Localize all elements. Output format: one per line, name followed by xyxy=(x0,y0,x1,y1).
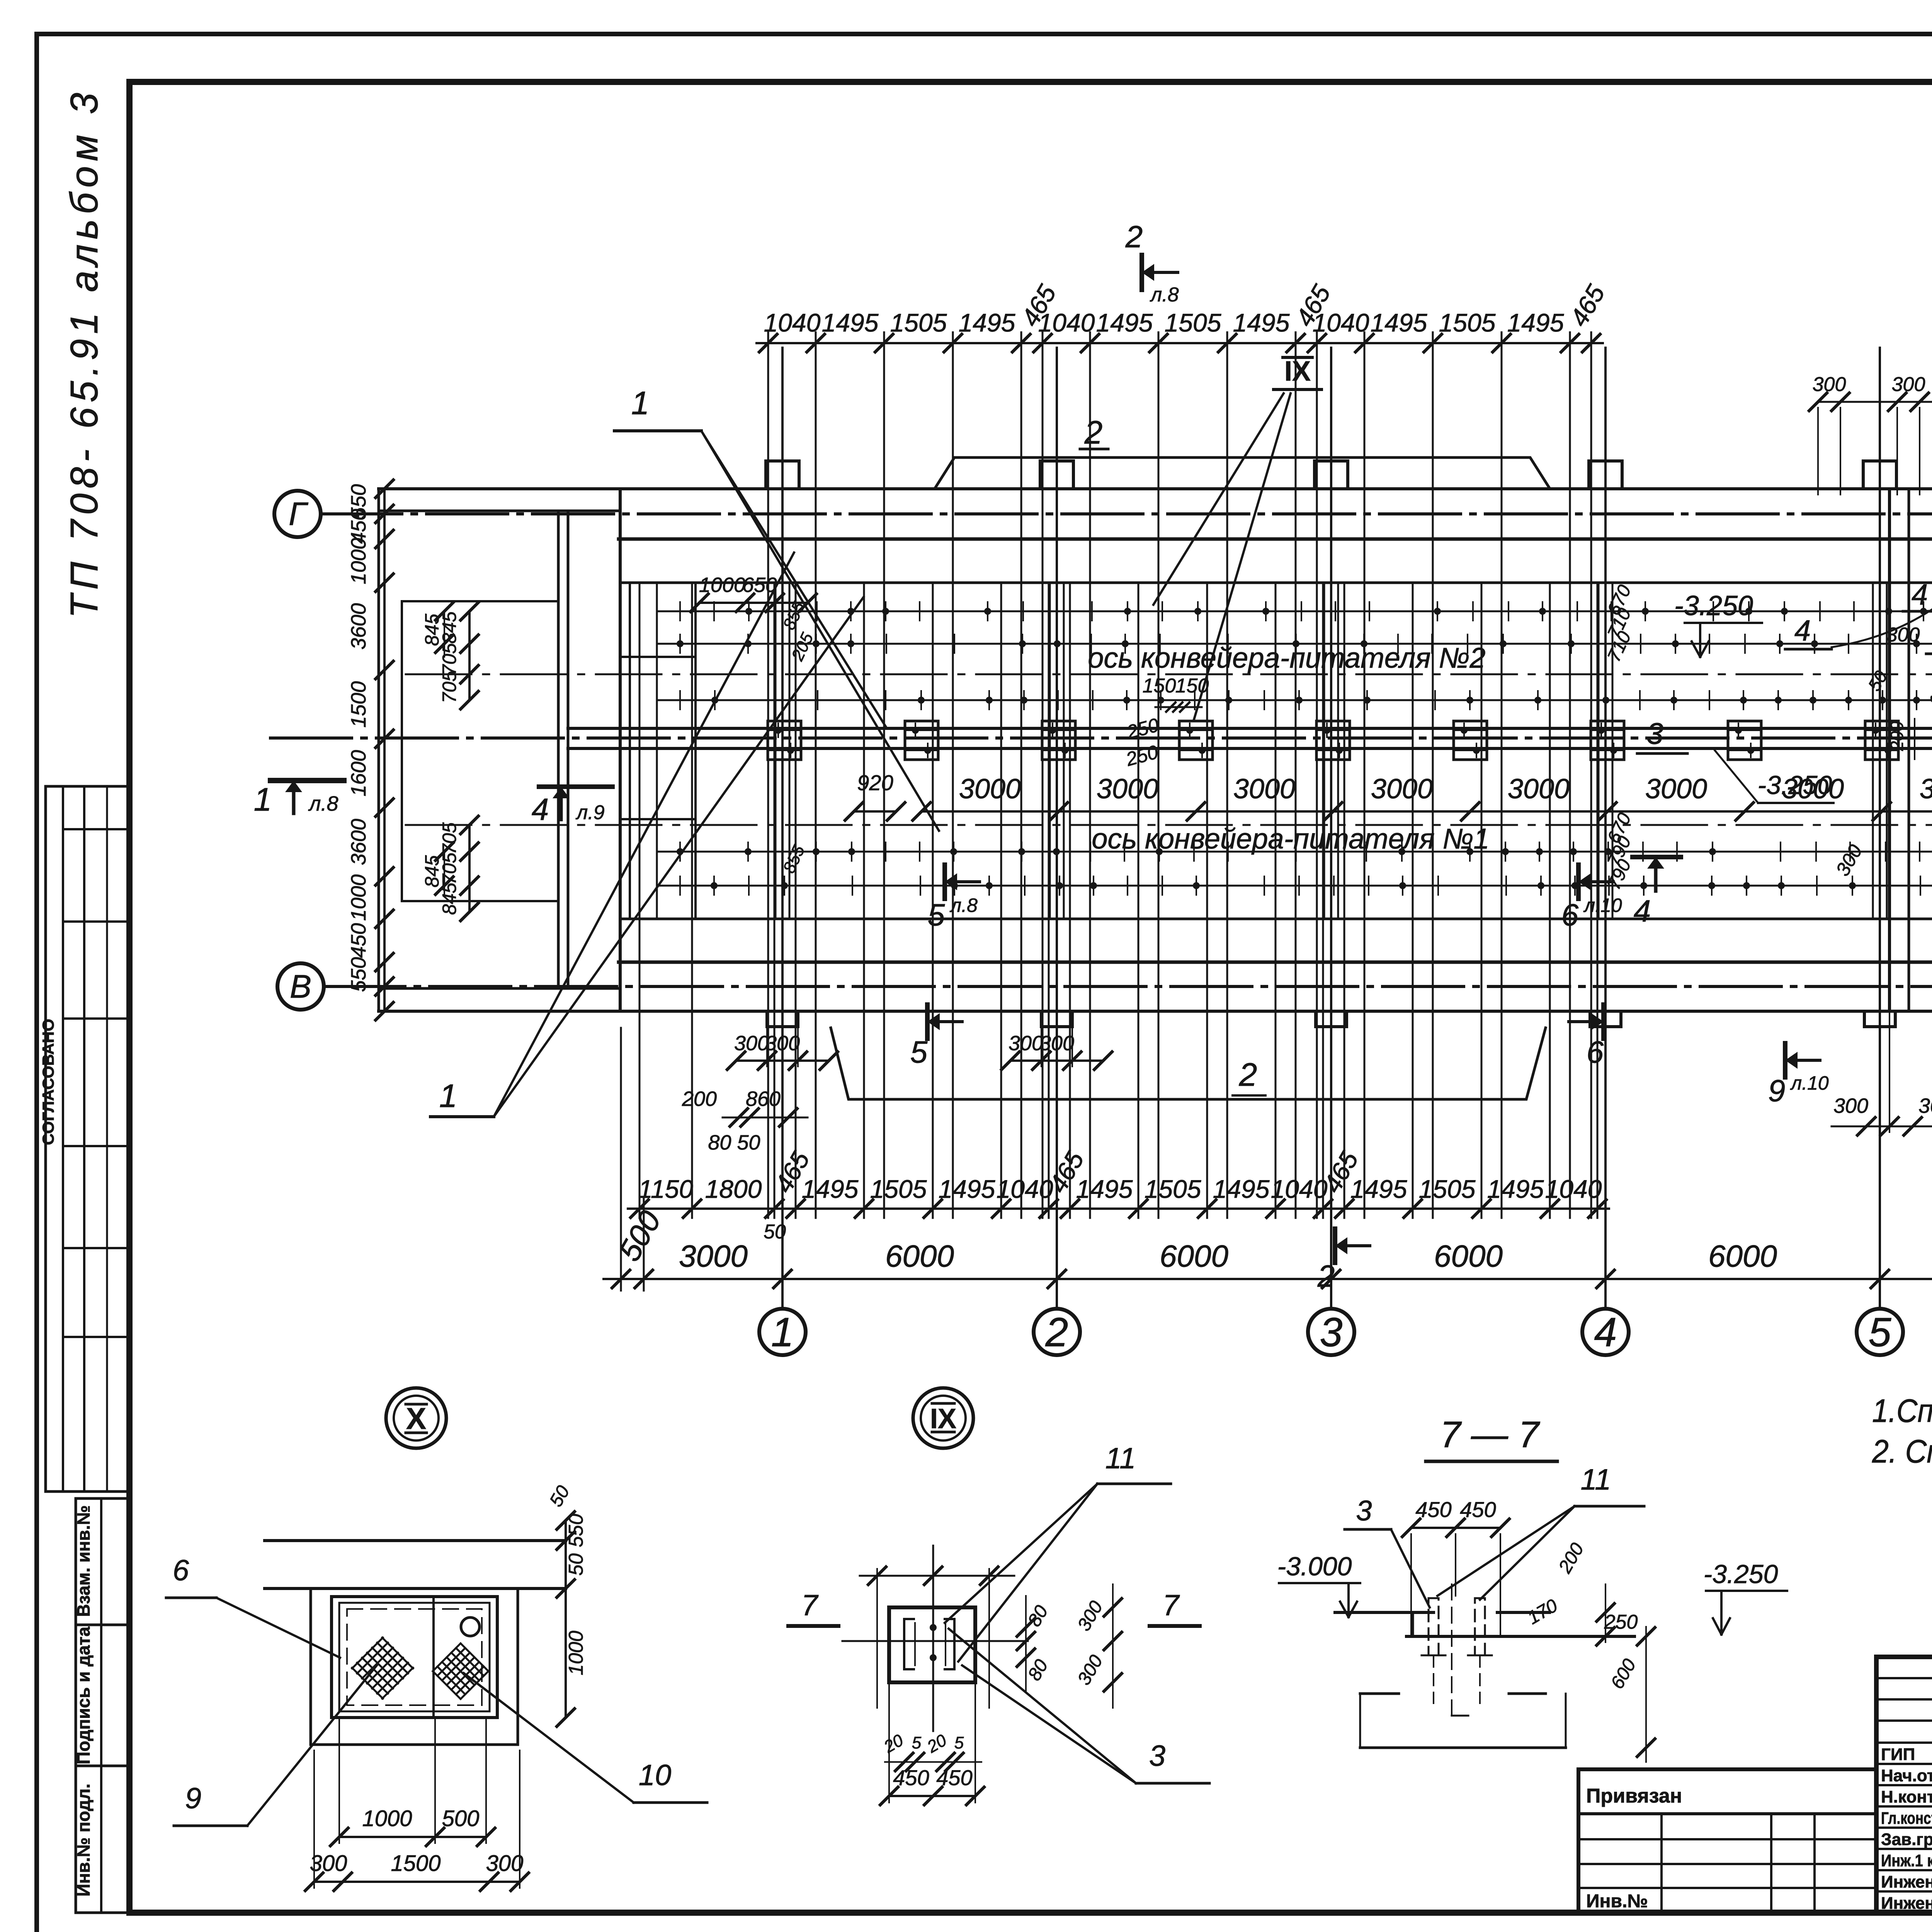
detail X hatch right xyxy=(433,1643,461,1671)
svg-text:450: 450 xyxy=(1415,1497,1451,1522)
svg-text:1505: 1505 xyxy=(1165,308,1221,337)
svg-text:-3.250: -3.250 xyxy=(1674,590,1753,621)
top wall thick line xyxy=(619,537,1932,541)
svg-text:6000: 6000 xyxy=(1708,1239,1777,1273)
svg-text:л.8: л.8 xyxy=(949,895,978,916)
svg-text:1000: 1000 xyxy=(565,1631,587,1675)
svg-text:1495: 1495 xyxy=(1507,308,1564,337)
svg-text:л.10: л.10 xyxy=(1583,895,1622,916)
svg-text:3000: 3000 xyxy=(1920,774,1932,804)
svg-text:1040: 1040 xyxy=(1038,308,1095,337)
rail center axis line xyxy=(270,736,1932,740)
svg-text:4: 4 xyxy=(1634,894,1651,928)
svg-text:2: 2 xyxy=(1084,414,1103,451)
svg-text:4: 4 xyxy=(1794,614,1811,647)
svg-text:2: 2 xyxy=(1045,1310,1068,1355)
svg-text:л.10: л.10 xyxy=(1790,1072,1829,1094)
svg-text:1000: 1000 xyxy=(347,538,370,584)
svg-text:550: 550 xyxy=(565,1514,587,1548)
svg-text:300: 300 xyxy=(1892,373,1925,396)
dim 150-150 interior xyxy=(1155,706,1202,708)
svg-text:7 — 7: 7 — 7 xyxy=(1440,1414,1541,1455)
svg-text:1505: 1505 xyxy=(1439,308,1496,337)
left vertical dimension chain xyxy=(383,489,386,1011)
svg-text:450: 450 xyxy=(936,1765,972,1790)
svg-text:7: 7 xyxy=(1163,1589,1180,1622)
svg-text:Инженер: Инженер xyxy=(1881,1872,1932,1891)
svg-text:1495: 1495 xyxy=(1350,1175,1407,1203)
svg-text:450: 450 xyxy=(893,1765,929,1790)
svg-text:300: 300 xyxy=(1039,1032,1074,1055)
svg-text:Г: Г xyxy=(289,496,308,532)
svg-text:500: 500 xyxy=(442,1806,480,1831)
top inner wall line xyxy=(620,582,1932,584)
svg-text:6: 6 xyxy=(173,1554,189,1587)
svg-text:4: 4 xyxy=(1594,1310,1617,1355)
svg-text:3: 3 xyxy=(1320,1310,1343,1355)
svg-text:1: 1 xyxy=(631,385,650,421)
axis V line xyxy=(324,985,1932,988)
column blocks on beam xyxy=(768,721,801,760)
callout 2 bottom bracket xyxy=(831,1028,1546,1099)
svg-text:Зав.гр.: Зав.гр. xyxy=(1881,1830,1932,1849)
svg-text:Инв.№: Инв.№ xyxy=(1586,1891,1648,1912)
svg-text:5: 5 xyxy=(910,1035,928,1069)
dim chain 300s top right xyxy=(1818,401,1932,403)
bottom wall thick line xyxy=(619,961,1932,964)
svg-text:300: 300 xyxy=(486,1851,524,1876)
section 7-7 dim 450-450 xyxy=(1411,1527,1500,1529)
svg-text:6000: 6000 xyxy=(885,1239,954,1273)
svg-text:5: 5 xyxy=(1869,1310,1892,1355)
grid verticals from top chain xyxy=(767,332,769,1218)
axis V circle xyxy=(277,963,324,1010)
svg-text:1495: 1495 xyxy=(1487,1175,1544,1203)
detail X circle mark xyxy=(386,1388,446,1448)
section marker 5 below wall xyxy=(925,1005,930,1039)
svg-text:1495: 1495 xyxy=(939,1175,995,1203)
axis5 transverse wall xyxy=(1888,491,1891,1009)
left stair wall pair xyxy=(619,489,622,1011)
svg-text:1495: 1495 xyxy=(959,308,1015,337)
svg-text:1495: 1495 xyxy=(1213,1175,1270,1203)
svg-text:150: 150 xyxy=(1143,675,1176,697)
axis G line xyxy=(321,512,1932,515)
svg-text:1500: 1500 xyxy=(391,1851,440,1876)
detail X frame divider xyxy=(432,1597,435,1718)
detail X wall band xyxy=(265,1539,566,1542)
left block top wall inner line xyxy=(379,510,620,512)
svg-text:1505: 1505 xyxy=(1145,1175,1201,1203)
svg-text:200: 200 xyxy=(682,1087,717,1111)
section marker 5 inside xyxy=(942,865,947,899)
svg-text:1.Спецификацию закладных изд: 1.Спецификацию закладных изделий смотрит… xyxy=(1872,1393,1932,1429)
axis circle 5 xyxy=(1857,1309,1903,1355)
detail IX column rect xyxy=(889,1607,975,1682)
svg-text:1: 1 xyxy=(254,781,272,818)
section marker 6 inside xyxy=(1576,865,1581,899)
svg-text:Нач.отд.: Нач.отд. xyxy=(1881,1766,1932,1785)
section 7-7 top slab line xyxy=(1335,1611,1434,1614)
svg-text:11: 11 xyxy=(1581,1463,1611,1496)
detail X hatch left xyxy=(352,1638,383,1668)
svg-text:2: 2 xyxy=(1317,1259,1335,1293)
conveyor axis 1 xyxy=(406,824,1932,826)
bottom outer wall thin line xyxy=(379,1010,1932,1013)
axis circle stems xyxy=(781,1279,784,1309)
svg-text:Н.контр.: Н.контр. xyxy=(1881,1787,1932,1806)
svg-text:Подпись и дата: Подпись и дата xyxy=(73,1626,94,1764)
callout 1 bottom-left leaders xyxy=(494,553,794,1117)
svg-text:-3.250: -3.250 xyxy=(1758,770,1832,800)
top dimension chain xyxy=(757,342,1603,344)
svg-text:3000: 3000 xyxy=(1097,774,1158,804)
bottom mid dimension chain xyxy=(628,1207,1609,1210)
svg-text:250: 250 xyxy=(1604,1611,1638,1633)
svg-text:Инв.№ подл.: Инв.№ подл. xyxy=(73,1784,94,1896)
svg-text:Привязан: Привязан xyxy=(1586,1785,1682,1807)
svg-text:860: 860 xyxy=(746,1087,781,1111)
svg-text:2: 2 xyxy=(1239,1056,1257,1093)
svg-text:80 50: 80 50 xyxy=(708,1131,760,1154)
conveyor axis 2 xyxy=(406,673,1932,675)
svg-text:3000: 3000 xyxy=(1645,774,1707,804)
title block main stamp xyxy=(1876,1657,1932,1913)
svg-text:6: 6 xyxy=(1561,898,1579,932)
section marker 1 left xyxy=(270,778,344,783)
svg-text:300: 300 xyxy=(734,1032,769,1055)
svg-text:ГИП: ГИП xyxy=(1881,1745,1915,1764)
svg-text:3600: 3600 xyxy=(347,819,370,865)
pilaster dim 300-300 axis2 xyxy=(1010,1060,1103,1062)
detail X pit outline xyxy=(311,1588,518,1745)
svg-text:Гл.констр.: Гл.констр. xyxy=(1881,1809,1932,1828)
grand bottom dimension chain xyxy=(604,1278,1932,1280)
svg-text:IX: IX xyxy=(1284,356,1311,387)
svg-text:1500: 1500 xyxy=(347,681,370,728)
dim 920 xyxy=(854,810,896,813)
svg-text:3: 3 xyxy=(1356,1495,1372,1527)
detail X drain circle xyxy=(461,1617,480,1636)
svg-text:705: 705 xyxy=(439,671,460,703)
svg-text:ось конвейера-питателя №2: ось конвейера-питателя №2 xyxy=(1088,642,1485,674)
svg-text:50: 50 xyxy=(565,1553,587,1576)
svg-text:1600: 1600 xyxy=(347,750,370,796)
svg-text:1150: 1150 xyxy=(638,1175,693,1203)
svg-text:6: 6 xyxy=(1587,1035,1604,1069)
svg-text:2: 2 xyxy=(1125,219,1143,254)
svg-text:3000: 3000 xyxy=(1233,774,1295,804)
detail IX channel left xyxy=(904,1619,914,1669)
grid verticals from bottom chain xyxy=(639,583,641,1218)
svg-text:1505: 1505 xyxy=(870,1175,927,1203)
section 7-7 step down left xyxy=(1412,1612,1414,1636)
section marker 9 bottom xyxy=(1783,1043,1787,1077)
svg-text:3000: 3000 xyxy=(1371,774,1433,804)
left end wall xyxy=(378,489,380,1011)
left vertical extension for grand chain xyxy=(620,1028,622,1291)
svg-text:4: 4 xyxy=(532,792,549,827)
svg-text:200: 200 xyxy=(1887,721,1907,751)
soglasovano table xyxy=(46,786,129,1492)
svg-text:1495: 1495 xyxy=(822,308,879,337)
svg-text:1040: 1040 xyxy=(764,308,821,337)
svg-text:9: 9 xyxy=(1768,1073,1786,1108)
svg-text:6000: 6000 xyxy=(1160,1239,1228,1273)
svg-text:л.9: л.9 xyxy=(575,801,605,824)
dim cluster 845-705 top xyxy=(468,611,471,700)
svg-text:550: 550 xyxy=(347,957,370,992)
detail X right vertical dims xyxy=(565,1520,567,1718)
svg-text:450: 450 xyxy=(347,923,370,958)
section marker 4 left xyxy=(539,784,612,789)
svg-text:5: 5 xyxy=(954,1733,964,1752)
svg-text:11: 11 xyxy=(1105,1442,1136,1475)
svg-text:1495: 1495 xyxy=(1371,308,1427,337)
svg-text:1495: 1495 xyxy=(1233,308,1290,337)
callout 1 top-left leaders xyxy=(701,431,886,726)
left block bottom wall inner line xyxy=(379,987,620,990)
svg-text:300: 300 xyxy=(1009,1032,1043,1055)
svg-text:Взам. инв.№: Взам. инв.№ xyxy=(73,1505,94,1617)
column dimension chain 3000 xyxy=(922,810,1932,813)
section 7-7 center vertical xyxy=(1451,1584,1452,1716)
svg-text:705: 705 xyxy=(439,822,460,855)
svg-text:-3.000: -3.000 xyxy=(1277,1552,1352,1581)
axis circle 4 xyxy=(1582,1309,1629,1355)
dim 1000-650 left xyxy=(699,602,808,604)
callout 2 top bracket xyxy=(935,457,1549,488)
svg-text:3000: 3000 xyxy=(1508,774,1570,804)
section marker 6 below wall xyxy=(1601,1005,1606,1039)
svg-text:6000: 6000 xyxy=(1434,1239,1503,1273)
left stamp strip table xyxy=(76,1498,129,1913)
svg-text:10: 10 xyxy=(639,1759,672,1792)
svg-text:1: 1 xyxy=(771,1310,794,1355)
svg-text:1: 1 xyxy=(439,1078,457,1114)
svg-text:845: 845 xyxy=(421,614,443,646)
section marker 2 top xyxy=(1139,255,1144,290)
callout IX leaders xyxy=(1153,393,1284,605)
bottom inner wall line xyxy=(620,918,1932,920)
svg-text:IX: IX xyxy=(930,1403,956,1434)
svg-text:-3.250: -3.250 xyxy=(1704,1560,1778,1589)
svg-text:1040: 1040 xyxy=(997,1175,1053,1203)
svg-text:300: 300 xyxy=(765,1032,800,1055)
dim cluster 845-705 bottom xyxy=(468,825,471,912)
svg-text:5: 5 xyxy=(928,898,945,932)
svg-text:Инж.1 кат: Инж.1 кат xyxy=(1881,1851,1932,1870)
svg-text:1495: 1495 xyxy=(1096,308,1153,337)
axis lines vertical xyxy=(781,348,784,1309)
svg-text:2. Смотрите совместно с лист: 2. Смотрите совместно с листами 8;9;10 xyxy=(1872,1433,1932,1469)
section 7-7 bottom edges xyxy=(1406,1635,1634,1638)
svg-text:ось конвейера-питателя №1: ось конвейера-питателя №1 xyxy=(1092,823,1489,855)
svg-text:300: 300 xyxy=(1813,373,1846,396)
svg-text:3: 3 xyxy=(1646,716,1663,750)
svg-text:5: 5 xyxy=(912,1733,922,1752)
svg-text:л.8: л.8 xyxy=(308,792,338,815)
svg-text:3000: 3000 xyxy=(959,774,1021,804)
section marker 2 bottom xyxy=(1333,1229,1337,1263)
svg-text:л.8: л.8 xyxy=(1150,284,1179,306)
svg-text:9: 9 xyxy=(185,1782,201,1815)
axis G circle xyxy=(274,491,321,537)
axis circle 3 xyxy=(1308,1309,1354,1355)
detail IX channel right xyxy=(945,1619,954,1669)
svg-text:7: 7 xyxy=(801,1589,819,1622)
detail X embedded frame xyxy=(332,1597,497,1718)
detail IX center lines xyxy=(842,1640,1028,1642)
axis circle 1 xyxy=(759,1309,806,1355)
svg-text:300: 300 xyxy=(310,1851,347,1876)
svg-text:150: 150 xyxy=(1175,675,1209,697)
embedded plate rows xyxy=(657,611,1932,612)
detail X dim 1000-500 xyxy=(339,1836,486,1838)
svg-text:X: X xyxy=(406,1401,426,1435)
stair steps left block xyxy=(620,656,696,658)
svg-text:1495: 1495 xyxy=(802,1175,859,1203)
privyazan table xyxy=(1578,1769,1876,1913)
detail IX circle mark xyxy=(913,1388,973,1448)
left partition wall pair xyxy=(557,511,560,988)
axis circle 2 xyxy=(1034,1309,1080,1355)
svg-text:Инженер: Инженер xyxy=(1881,1894,1932,1913)
svg-text:ТП 708- 65.91 альбом 3: ТП 708- 65.91 альбом 3 xyxy=(63,93,106,618)
svg-text:1000: 1000 xyxy=(347,874,370,921)
detail IX crosshair dots xyxy=(930,1624,937,1631)
bottom wall pilasters xyxy=(767,1011,798,1027)
svg-text:1505: 1505 xyxy=(1419,1175,1476,1203)
svg-text:300: 300 xyxy=(1886,624,1920,646)
section 7-7 anchor bolts xyxy=(1429,1598,1439,1655)
svg-text:3600: 3600 xyxy=(347,603,370,650)
pilaster dim 300-300 axis1 xyxy=(736,1060,829,1062)
axis transverse beam pairs xyxy=(775,584,777,918)
top outer wall thin line xyxy=(379,487,1932,490)
svg-text:300: 300 xyxy=(1918,1094,1932,1117)
svg-text:1040: 1040 xyxy=(1313,308,1369,337)
svg-text:4: 4 xyxy=(1912,578,1928,611)
svg-text:1040: 1040 xyxy=(1545,1175,1602,1203)
svg-text:845: 845 xyxy=(421,855,443,888)
svg-text:СОГЛАСОВАНО: СОГЛАСОВАНО xyxy=(39,1019,57,1145)
svg-text:3: 3 xyxy=(1149,1740,1165,1772)
top wall pilasters xyxy=(766,461,799,489)
svg-text:1505: 1505 xyxy=(890,308,947,337)
svg-text:1495: 1495 xyxy=(1076,1175,1133,1203)
svg-text:920: 920 xyxy=(857,770,893,795)
svg-text:1000: 1000 xyxy=(362,1806,412,1831)
section marker 4 mid xyxy=(1654,857,1658,891)
left block inner outline xyxy=(402,601,558,901)
svg-text:В: В xyxy=(290,968,311,1005)
svg-text:50: 50 xyxy=(764,1221,786,1243)
beam strip lines xyxy=(568,727,1932,730)
svg-text:1800: 1800 xyxy=(705,1175,762,1203)
svg-text:1000: 1000 xyxy=(699,573,745,597)
svg-text:300: 300 xyxy=(1833,1094,1868,1117)
detail IX top dim line xyxy=(860,1575,1014,1577)
detail X dim 300-1500-300 xyxy=(314,1881,520,1883)
svg-text:450: 450 xyxy=(1460,1497,1496,1522)
svg-text:1040: 1040 xyxy=(1271,1175,1328,1203)
svg-text:3000: 3000 xyxy=(679,1239,748,1273)
